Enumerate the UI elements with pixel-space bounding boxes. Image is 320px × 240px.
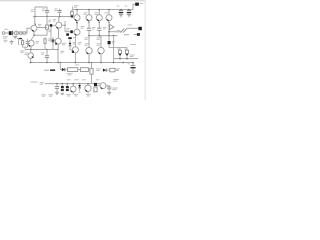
node bus-b [46, 49, 48, 51]
node c9 [132, 62, 134, 64]
resistor R6 [44, 37, 46, 49]
label TR12 name [85, 44, 89, 46]
transistor TR3 label [25, 53, 28, 55]
label feedback [20, 51, 25, 52]
diode D4 dark [66, 33, 69, 36]
node rail joint blob [71, 16, 73, 18]
label caption left [31, 81, 38, 83]
node psu-b [62, 83, 64, 85]
zener Z1 dark [94, 83, 97, 86]
label dark text [19, 38, 22, 39]
wire below bus at TR5 [57, 50, 59, 63]
wire TR7 down [74, 35, 76, 47]
node psu-a [56, 83, 58, 85]
capacitor C4 input electrolytic [9, 31, 14, 35]
label psu right top [113, 80, 119, 82]
node rail1-a [34, 16, 36, 18]
node gnd-h [60, 62, 62, 64]
node gnd-g [113, 62, 115, 64]
resistor R14 [118, 48, 121, 59]
stub above rail at VAS column [72, 6, 74, 9]
resistor R20 [94, 87, 97, 92]
node c11 [128, 9, 130, 11]
page top edge [0, 0, 146, 2]
transistor TR2 [28, 40, 34, 46]
main positive rail [72, 9, 133, 11]
node gnd-b [46, 62, 48, 64]
transistor TR9 top row [86, 10, 92, 21]
label psu above rail 2 [96, 79, 100, 81]
transistor TR4 label [53, 20, 56, 22]
label R14 [117, 48, 120, 50]
wire TR1 collector load [37, 27, 47, 29]
node rail-TR10 [99, 9, 101, 11]
label psu right bottom [112, 88, 118, 90]
node gnd-a [30, 62, 32, 64]
diode D6 dark on VAS column [108, 36, 111, 48]
inductor L1 diagonal [121, 28, 127, 32]
capacitor C1 label [31, 10, 34, 12]
diode D1 label [48, 39, 51, 41]
node gnd-e [88, 62, 90, 64]
transistor TR8 driver [72, 47, 79, 63]
vertical VAS branch [64, 21, 66, 32]
label bottom far left [41, 95, 53, 96]
label under C14 [66, 95, 71, 96]
capacitor C12 [55, 84, 59, 92]
node vas-top [64, 24, 66, 26]
label under rail mid [75, 64, 79, 66]
diode D3 dark [70, 30, 73, 33]
transistor TR5 [55, 28, 61, 49]
node gnd-i [91, 62, 93, 64]
capacitor C8 [97, 21, 101, 36]
arrow output triangle [110, 24, 114, 29]
label V+ [140, 2, 143, 4]
resistor R2 [23, 32, 26, 34]
bias line [89, 35, 118, 37]
capacitor C3 [57, 9, 61, 17]
terminal OUT+ [138, 27, 141, 30]
label TR8 left [61, 51, 65, 53]
node psu-e [79, 83, 81, 85]
emitter arrow TR10 [99, 22, 100, 23]
input label [3, 37, 8, 38]
input jack J1 [2, 32, 8, 35]
label R16 [67, 74, 73, 75]
label D9 [78, 92, 81, 94]
label out region [117, 30, 121, 32]
capacitor C14 electrolytic [66, 84, 69, 92]
zobel branch [59, 63, 61, 70]
node gnd-d [75, 62, 77, 64]
label TR15 [86, 95, 91, 96]
wire TR4 to VAS [62, 24, 65, 26]
diode D1 [52, 37, 54, 49]
node gnd-f [100, 62, 102, 64]
transistor TR4 [56, 17, 62, 29]
transistor TR6 top row [74, 10, 80, 21]
label TR8 [78, 43, 82, 45]
wire TR1 emitter [34, 31, 47, 35]
wire vertical mid-feed [113, 36, 115, 63]
transistor TR13 output [98, 47, 104, 62]
node gnd-j [122, 62, 124, 64]
node bus-c [57, 49, 59, 51]
page right edge [145, 0, 147, 100]
wire supply terminal [133, 4, 135, 9]
caption gray [44, 69, 49, 71]
resistor R18 vertical [90, 63, 93, 84]
left supply rail [33, 16, 72, 18]
label R19 [116, 69, 120, 71]
label plus C11 [125, 5, 127, 7]
ground C12 [55, 92, 59, 94]
ground rail [30, 62, 134, 64]
node rail1-c [59, 16, 61, 18]
capacitor C16 feedback [26, 39, 30, 47]
capacitor C3 label [54, 9, 57, 11]
node c10 [120, 9, 122, 11]
transistor TR11 top row [106, 10, 112, 21]
emitter arrow TR9 [88, 22, 89, 23]
label right mid [130, 43, 136, 45]
capacitor C5 label [41, 53, 44, 55]
label mid chain [96, 69, 101, 71]
terminal OUT- [137, 33, 140, 36]
capacitor C15 psu [106, 86, 111, 92]
capacitor C5 [45, 50, 49, 63]
capacitor C9 rail end [130, 63, 135, 71]
resistor R17 [78, 68, 90, 72]
caption dark [50, 69, 55, 71]
ground C11 [127, 15, 131, 17]
node rail-TR6 [76, 9, 78, 11]
label low line [130, 55, 135, 57]
emitter arrow TR6 [76, 22, 77, 23]
ground input [13, 36, 17, 38]
wire input to TR1 base [26, 28, 31, 33]
label C7 [92, 27, 95, 29]
transistor TR15 psu [85, 84, 91, 94]
label TR7 [81, 27, 85, 29]
label above input [4, 28, 8, 30]
capacitor C7 [87, 21, 91, 36]
resistor R19 [106, 68, 118, 72]
mid bus [25, 49, 58, 51]
PSU rail [45, 83, 100, 85]
resistor R3 [46, 17, 49, 36]
resistor R16 [68, 68, 78, 72]
label TR1 right [38, 24, 41, 25]
ground C9 [130, 71, 135, 74]
ground C15 [107, 92, 111, 94]
ground C10 [119, 15, 123, 17]
label psu above rail 1 [67, 79, 86, 81]
label L1 [128, 24, 133, 26]
label TR9 [84, 13, 88, 15]
label C8 [103, 27, 106, 29]
label plus C10 [117, 5, 119, 7]
node TR1 emitter [33, 34, 35, 36]
transistor TR16 psu [97, 83, 106, 89]
node lowline-b [126, 58, 128, 60]
wire D2 to TR4 base [52, 25, 56, 27]
output lower line [114, 58, 138, 60]
diode D2 dark [50, 24, 53, 27]
diode D9 psu [78, 84, 81, 92]
label TR13 [97, 38, 101, 40]
node bias-b [99, 35, 101, 37]
capacitor C2 [45, 7, 49, 17]
wire to TR2 [31, 35, 34, 40]
ground C13 [61, 93, 65, 94]
node psu-f [87, 83, 89, 85]
transistor TR7 [74, 29, 80, 35]
diode D7 [60, 68, 67, 71]
wire feedback join [23, 47, 28, 49]
label left of D5 [62, 43, 66, 45]
label TR14 [74, 95, 78, 96]
resistor R12 rail decoupling [71, 10, 74, 16]
node bias-d [113, 35, 115, 37]
wire TR1 collector to rail [34, 17, 36, 26]
node gnd-c [57, 62, 59, 64]
label gray text [4, 40, 8, 42]
PSU label AC [40, 83, 44, 85]
node psu-c [67, 83, 69, 85]
wire TR6 to TR7 [76, 21, 78, 30]
wire D2 branch [51, 27, 55, 41]
wire TR2 emitter [30, 46, 32, 49]
transistor TR10 top row [96, 10, 102, 21]
bias network wire [109, 47, 127, 49]
diode D5 [69, 39, 73, 50]
label TR2 right [36, 42, 40, 44]
node screen circle [14, 31, 18, 35]
resistor R15 [125, 48, 128, 59]
label TR12 [85, 38, 89, 40]
resistor R3 label [48, 20, 51, 32]
node rail-TR9 [88, 9, 90, 11]
transistor TR14 psu [70, 84, 76, 94]
label C6 [73, 37, 76, 39]
wire to output TR13 [100, 36, 102, 48]
transistor TR3 [28, 50, 34, 63]
label plus c9 [128, 63, 130, 65]
resistor R1 [19, 32, 22, 34]
wire vertical C1 branch [34, 7, 36, 17]
wire hook [17, 39, 19, 46]
label TR10 [95, 13, 99, 15]
node rail-TR11 [108, 9, 110, 11]
node bias-a [88, 35, 90, 37]
capacitor C11 supply [127, 10, 132, 15]
wire TR11 down [108, 21, 110, 36]
capacitor C13 electrolytic [61, 84, 64, 92]
node bus-a [30, 49, 32, 51]
ground feedback [10, 40, 14, 44]
label above rail [74, 6, 78, 7]
transistor TR1 [31, 23, 37, 31]
wire lower terminal2 [134, 34, 137, 36]
wire to output TR12 [88, 36, 90, 48]
node out [108, 31, 110, 33]
capacitor C10 supply [119, 10, 124, 15]
output node wire [109, 31, 122, 33]
terminal V+ [135, 3, 139, 6]
wire lower terminal [124, 34, 129, 36]
node bias-c [108, 35, 110, 37]
wire VAS to TR7 base [65, 31, 74, 33]
node psu-d [72, 83, 74, 85]
transistor TR12 output [86, 47, 92, 62]
label D5 [73, 42, 76, 44]
resistor R4 feedback [22, 39, 24, 47]
capacitor C6 dark [68, 37, 72, 39]
label TR13 name [97, 44, 101, 46]
wire to terminal [127, 27, 139, 29]
node rail1-b [46, 16, 48, 18]
label D6 [112, 41, 115, 43]
label VAS [66, 29, 70, 31]
wire top loop [35, 6, 47, 8]
label R15 [124, 48, 127, 50]
label TR11 [104, 12, 108, 14]
diode D8 [93, 69, 106, 72]
capacitor C2 label [42, 9, 45, 11]
node lowline-a [119, 58, 121, 60]
emitter arrow TR11 [108, 22, 109, 23]
